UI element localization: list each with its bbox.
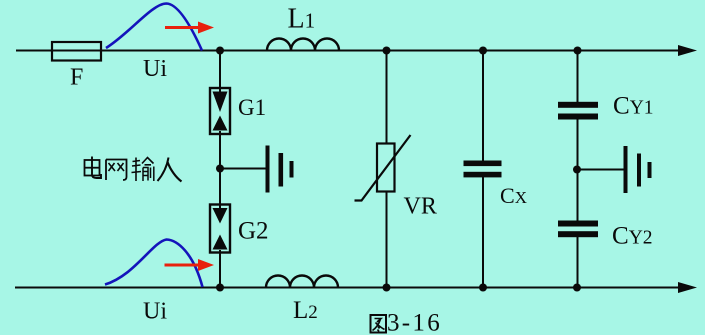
网 (106, 160, 127, 181)
arrowhead bottom right output (678, 282, 697, 293)
wire junction to center ground (220, 168, 267, 170)
wire top line L (16, 50, 679, 52)
wire CY1 to junction (577, 119, 579, 221)
node junction G1/G2 (216, 165, 224, 173)
node top-2 (VR) (383, 47, 391, 55)
svg-text:VR: VR (404, 194, 437, 220)
node junction CY (573, 166, 581, 174)
node bottom-1 (216, 284, 224, 292)
fuse F (52, 42, 101, 61)
svg-text:3-16: 3-16 (387, 310, 442, 335)
ground center (266, 146, 294, 193)
输 (132, 158, 142, 182)
wire to G1 (219, 51, 221, 93)
ground right (624, 146, 652, 193)
inductor L2 (266, 276, 338, 288)
node top-1 (216, 47, 224, 55)
图 box (371, 315, 387, 333)
node bottom-2 (VR) (383, 284, 391, 292)
wire VR vertical (386, 51, 388, 288)
surge arrester G1 (210, 88, 230, 134)
node bottom-3 (CX) (479, 284, 487, 292)
wire G1 to junction (219, 131, 221, 209)
node bottom-4 (CY) (573, 284, 581, 292)
wire CY1 top (577, 51, 579, 103)
surge arrester G2 (210, 205, 230, 253)
capacitor CX (464, 161, 502, 178)
varistor VR (355, 135, 411, 201)
svg-text:Ui: Ui (143, 299, 167, 325)
svg-text:L1: L1 (288, 4, 316, 35)
svg-text:L2: L2 (293, 297, 318, 324)
arrow red top (165, 26, 200, 29)
svg-text:Ui: Ui (143, 56, 167, 82)
node top-4 (CY) (574, 47, 582, 55)
svg-text:CY2: CY2 (612, 223, 653, 250)
node top-3 (CX) (479, 47, 487, 55)
svg-text:CY1: CY1 (613, 93, 654, 120)
wire G2 to bottom (219, 250, 221, 288)
caption 图3-16 (371, 315, 387, 333)
svg-text:F: F (70, 65, 83, 91)
arrow red bottom (165, 264, 201, 267)
wire CX bottom (482, 177, 484, 288)
电 (92, 157, 101, 179)
wire CX top (482, 51, 484, 162)
入 (158, 158, 169, 182)
svg-text:G2: G2 (238, 218, 269, 245)
wire bottom line N (15, 287, 679, 289)
capacitor CY1 (558, 102, 598, 120)
label 电网输入 (hand drawn strokes) (85, 157, 182, 182)
svg-text:G1: G1 (238, 95, 266, 120)
surge pulse top (blue) (106, 4, 202, 51)
wire junction to right ground (577, 169, 625, 171)
surge pulse bottom (blue) (105, 240, 203, 288)
inductor L1 (267, 39, 339, 51)
wire CY2 bottom (577, 237, 579, 288)
capacitor CY2 (558, 221, 598, 238)
arrowhead top right output (678, 45, 697, 56)
